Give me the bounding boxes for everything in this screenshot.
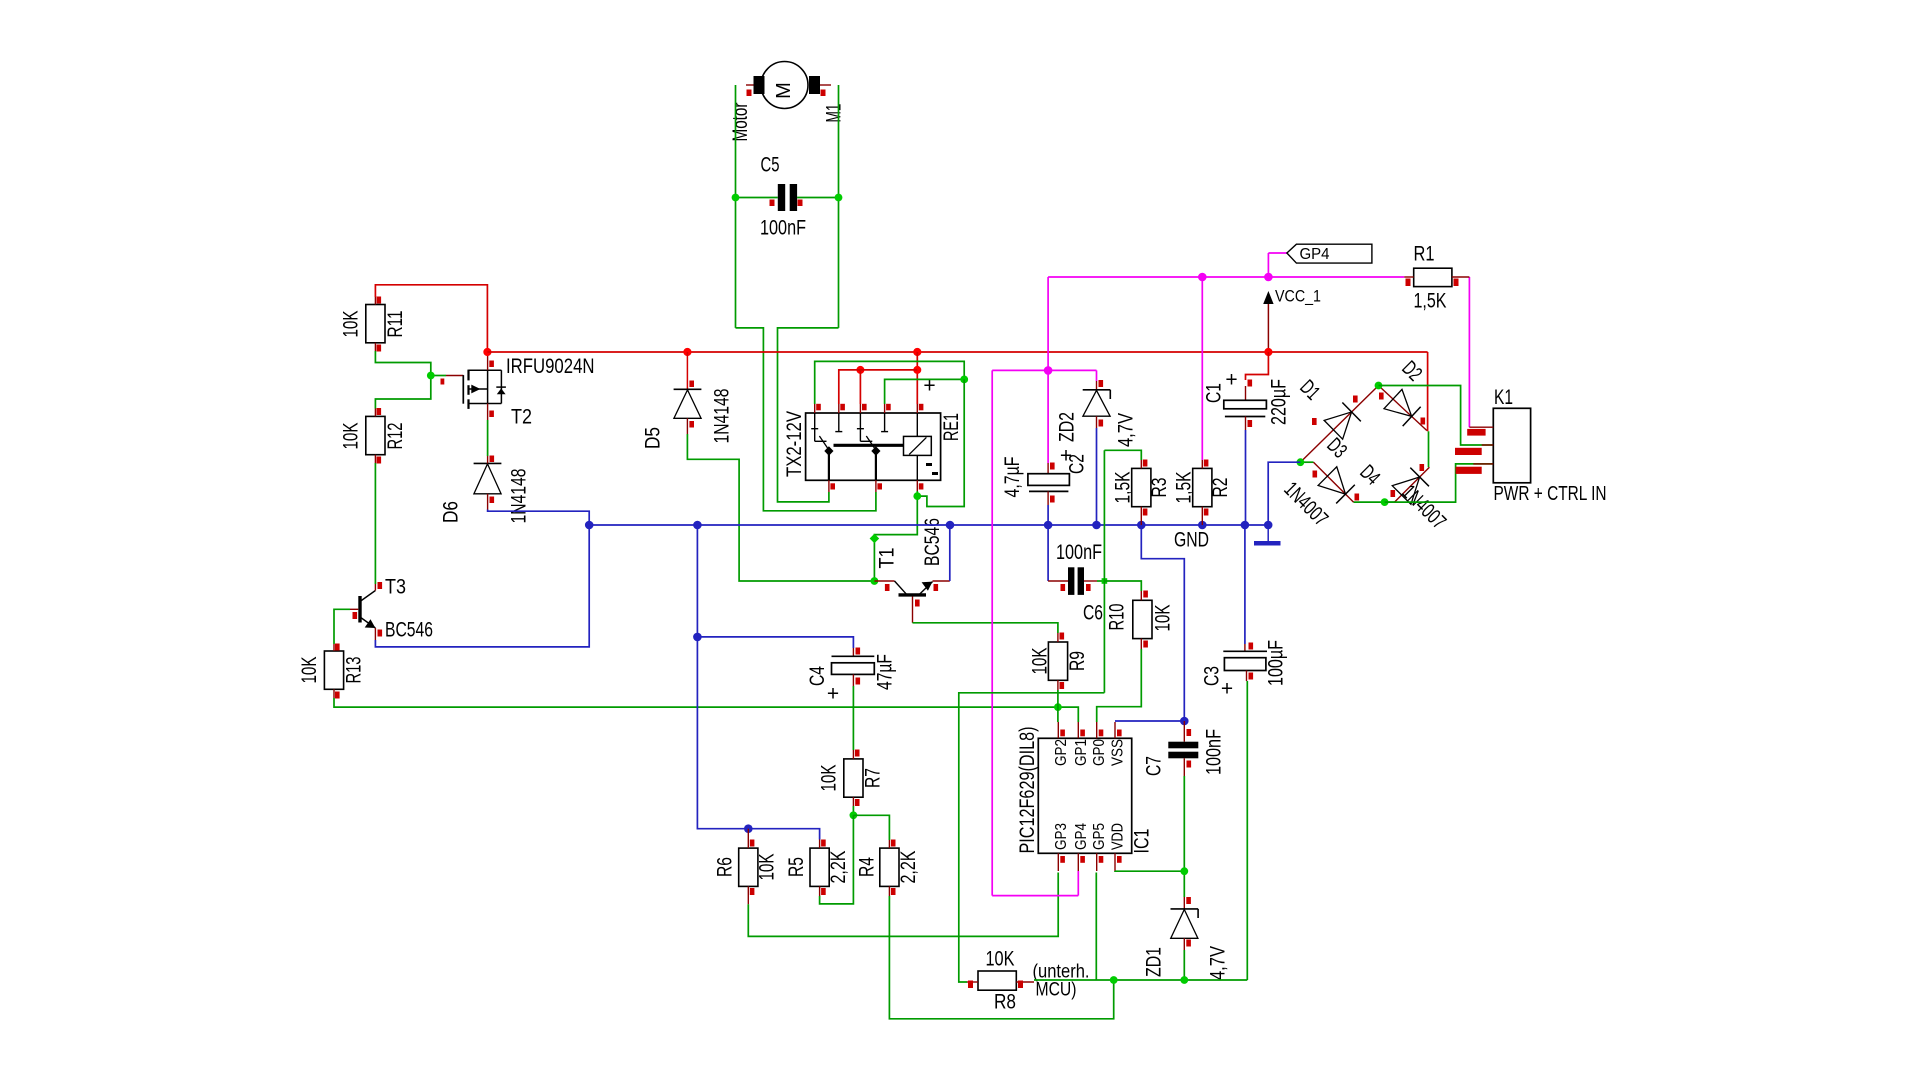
resistor R12 xyxy=(366,409,385,464)
resistor R10 xyxy=(1133,591,1152,649)
svg-text:T1: T1 xyxy=(875,548,898,569)
capacitor C2 4,7uF xyxy=(1028,463,1070,505)
pad T1 base xyxy=(885,584,890,591)
wire net to R8 left xyxy=(959,693,1105,982)
pad K1 pin3 xyxy=(1456,467,1482,474)
capacitor C3 100uF xyxy=(1223,644,1267,681)
pad T2 gate xyxy=(441,379,445,385)
pad C5 pin2 xyxy=(798,200,803,207)
pad IC1 VSS xyxy=(1117,730,1122,737)
svg-text:C4: C4 xyxy=(806,666,829,686)
relay RE1 TX2-12V xyxy=(806,404,941,492)
pad R9 bottom xyxy=(1060,682,1065,689)
pad C3 bottom xyxy=(1249,673,1254,680)
junction C7 top VSS xyxy=(1180,717,1189,726)
junction relay coil+ red bus xyxy=(913,348,921,356)
pad R5 top xyxy=(821,840,826,847)
pad R4 bottom xyxy=(891,888,896,895)
wire motor right vertical xyxy=(838,85,840,328)
pad R6 bottom xyxy=(750,888,755,895)
svg-text:D5: D5 xyxy=(641,427,664,449)
pad C2 top xyxy=(1050,463,1055,470)
svg-text:10K: 10K xyxy=(1028,648,1051,675)
pad C4 top xyxy=(856,648,861,655)
junction GP4 net C2/ZD2 node xyxy=(1044,366,1053,375)
svg-text:R9: R9 xyxy=(1066,651,1089,671)
pad R10 bottom xyxy=(1143,641,1148,648)
wire node to R5 bottom xyxy=(820,815,854,904)
svg-text:R8: R8 xyxy=(994,990,1016,1013)
svg-text:10K: 10K xyxy=(1151,605,1174,632)
resistor R11 xyxy=(366,297,385,351)
svg-text:VCC_1: VCC_1 xyxy=(1275,286,1321,305)
svg-text:1N4148: 1N4148 xyxy=(710,389,733,444)
wire bridge bottom node to K1 pin3 xyxy=(1385,464,1494,502)
pad M1 pin2 xyxy=(821,90,826,97)
wire GND bus to C3 top xyxy=(1244,525,1246,644)
pad IC1 GP3 xyxy=(1060,856,1065,863)
junction GND bus C4 branch xyxy=(693,521,702,530)
junction C6 right node xyxy=(1102,578,1108,584)
svg-text:C2: C2 xyxy=(1065,454,1088,474)
svg-text:10K: 10K xyxy=(339,423,362,450)
pad R10 top xyxy=(1143,591,1148,598)
svg-text:100µF: 100µF xyxy=(1264,640,1287,686)
flag GP4 xyxy=(1287,244,1372,263)
pad RE1 pin4 top xyxy=(886,404,891,411)
junction GND bus D6 xyxy=(585,521,594,530)
wire R8 right / green GND net xyxy=(1034,979,1247,981)
wire VSS to GND bus xyxy=(1141,525,1184,721)
pad R3 top xyxy=(1143,460,1148,467)
wire R6 bottom to GP3 xyxy=(748,873,1058,937)
svg-text:R5: R5 xyxy=(785,857,808,877)
pad T1 collector xyxy=(915,600,920,607)
pad D2 cathode xyxy=(1421,418,1426,425)
pad D6 anode xyxy=(490,497,495,504)
pad D3 cathode xyxy=(1355,494,1360,501)
junction net-A with R9/GP2 xyxy=(1054,703,1062,711)
svg-text:10K: 10K xyxy=(298,657,321,684)
svg-text:VSS: VSS xyxy=(1110,739,1127,766)
wire net to R10 top xyxy=(1104,581,1141,591)
svg-text:220µF: 220µF xyxy=(1267,379,1290,425)
wire R12 bottom to T3 collector xyxy=(374,463,376,584)
wire GP4 net magenta xyxy=(992,253,1469,896)
svg-text:D6: D6 xyxy=(439,501,462,523)
pad K1 pin2 xyxy=(1455,448,1482,455)
svg-text:RE1: RE1 xyxy=(940,413,963,441)
pad C5 pin1 xyxy=(770,200,775,207)
svg-text:R6: R6 xyxy=(713,857,736,877)
pad T2 source xyxy=(489,411,494,418)
wire D5 anode to T1 base node xyxy=(687,434,874,581)
pad R12 bottom xyxy=(377,457,382,464)
junction R7/R4/R5 node xyxy=(850,811,858,819)
svg-text:IC1: IC1 xyxy=(1130,829,1153,854)
pad D1 cathode xyxy=(1353,396,1358,403)
pad D1 anode xyxy=(1312,418,1317,425)
wire relay aux node to coil- loop xyxy=(917,379,964,506)
zener diode ZD1 4,7V xyxy=(1171,897,1199,950)
wire GND bus blue xyxy=(589,524,1268,526)
pad R8 left xyxy=(968,981,973,989)
svg-text:47µF: 47µF xyxy=(873,654,896,690)
wire relay pin1t aux net xyxy=(815,361,965,404)
pad C1 bottom xyxy=(1248,420,1253,427)
resistor R4 xyxy=(880,840,899,896)
pad R11 top xyxy=(377,297,382,304)
capacitor C4 47uF xyxy=(832,648,875,686)
svg-text:1,5K: 1,5K xyxy=(1111,472,1134,504)
wire R10 bottom to GP0 xyxy=(1097,649,1142,722)
resistor R5 xyxy=(810,840,829,897)
pad C2 bottom xyxy=(1050,496,1055,503)
wire green net to C3 bottom xyxy=(1246,681,1248,980)
IC U IC1 PIC12F629(DIL8) xyxy=(1038,722,1131,871)
svg-text:2,2K: 2,2K xyxy=(827,851,850,884)
junction relay red pin3 node xyxy=(856,366,864,374)
capacitor C5 xyxy=(736,184,839,211)
svg-text:1,5K: 1,5K xyxy=(1414,289,1447,312)
svg-text:M: M xyxy=(773,82,795,99)
wire motor left vertical xyxy=(735,85,737,328)
svg-text:IRFU9024N: IRFU9024N xyxy=(506,355,595,378)
pad R13 bottom xyxy=(335,692,340,699)
junction T1 base node xyxy=(871,577,879,585)
pad ZD1 cathode xyxy=(1186,897,1191,904)
diode D5 1N4148 xyxy=(674,352,702,434)
wire motor right to relay pin1b xyxy=(778,328,839,502)
svg-text:100nF: 100nF xyxy=(1202,729,1225,775)
pad R9 top xyxy=(1060,633,1065,640)
pad RE1 pin1 bottom xyxy=(830,483,835,489)
junction green net R4 branch xyxy=(1110,976,1118,984)
svg-text:R11: R11 xyxy=(384,311,407,338)
pad D6 cathode xyxy=(490,456,495,463)
diode D1 1N4007 xyxy=(1302,387,1378,462)
diode D6 1N4148 xyxy=(474,456,502,510)
pad T3 emitter xyxy=(378,630,383,637)
pad T3 base xyxy=(353,612,358,619)
svg-text:1N4148: 1N4148 xyxy=(507,469,530,524)
svg-text:+: + xyxy=(1221,677,1233,700)
pad C6 right xyxy=(1086,584,1091,591)
junction GP4 net R2 node xyxy=(1198,273,1207,282)
wire R9 bottom to GP2 xyxy=(1057,690,1059,722)
pad R12 top xyxy=(377,408,382,415)
pad R7 bottom xyxy=(855,799,860,806)
svg-text:100nF: 100nF xyxy=(1056,541,1102,564)
svg-text:2,2K: 2,2K xyxy=(897,851,920,884)
wire C6/R3/R10/R8 net vertical xyxy=(1103,450,1105,693)
svg-text:GP4: GP4 xyxy=(1073,823,1090,850)
wire C4 top blue xyxy=(697,637,853,648)
svg-text:R3: R3 xyxy=(1148,478,1171,498)
svg-text:R10: R10 xyxy=(1105,604,1128,631)
junction T2 drain red bus xyxy=(483,348,491,356)
resistor R13 xyxy=(324,644,343,698)
pad RE1 coil+ top xyxy=(919,404,924,411)
svg-text:R2: R2 xyxy=(1209,478,1232,498)
pad RE1 pin1 top xyxy=(816,404,821,411)
pad RE1 pin2 bottom xyxy=(877,483,882,489)
diode D2 1N4007 xyxy=(1380,387,1427,431)
pad ZD2 anode xyxy=(1099,420,1104,427)
resistor R9 xyxy=(1048,633,1067,690)
svg-text:GP5: GP5 xyxy=(1091,823,1108,850)
junction D5 red bus xyxy=(683,348,691,356)
resistor R1 1,5K xyxy=(1404,268,1469,286)
pad D5 cathode xyxy=(689,381,694,388)
svg-text:10K: 10K xyxy=(755,854,778,881)
wire relay coil- to T1 base node xyxy=(874,491,917,581)
wire red supply bus xyxy=(487,351,1268,353)
resistor R7 xyxy=(844,750,863,806)
svg-text:R1: R1 xyxy=(1414,242,1435,265)
resistor R6 xyxy=(739,829,758,905)
pad R8 right xyxy=(1018,981,1023,989)
svg-text:ZD2: ZD2 xyxy=(1055,412,1078,442)
svg-text:10K: 10K xyxy=(339,311,362,338)
wire R11 top to T2 drain (red) xyxy=(375,285,487,352)
wire C1 bottom to GND bus xyxy=(1245,430,1247,525)
motor M1 xyxy=(746,62,831,109)
pad K1 pin1 xyxy=(1467,429,1485,436)
svg-text:+: + xyxy=(827,682,839,705)
capacitor C7 100nF xyxy=(1168,721,1198,776)
wire gate stub xyxy=(431,375,446,377)
svg-text:T3: T3 xyxy=(385,575,406,598)
wire bridge top node to K1 pin2 xyxy=(1379,386,1494,446)
wire R4 bottom to VDD node xyxy=(889,896,1113,1019)
svg-text:VDD: VDD xyxy=(1110,823,1127,850)
wire D6 anode to GND bus xyxy=(488,510,590,526)
svg-text:ZD1: ZD1 xyxy=(1142,947,1165,977)
wire red bus right segment to bridge xyxy=(1268,351,1427,353)
svg-text:+: + xyxy=(1225,368,1237,391)
wire T1 collector to R9 top xyxy=(913,623,1058,633)
power symbol VCC_1 xyxy=(1263,291,1273,352)
wire R11 bottom / R12 top / T2 gate net xyxy=(375,351,430,409)
svg-text:4,7V: 4,7V xyxy=(1114,413,1137,447)
transistor T1 BC546 xyxy=(874,581,949,623)
wire relay contact supply pins red xyxy=(839,370,918,404)
wire T1 emitter to GND bus xyxy=(949,525,951,581)
junction GND bus T1 emitter xyxy=(946,521,955,530)
pad RE1 pin2 top xyxy=(840,404,845,411)
pad ZD1 anode xyxy=(1186,940,1191,947)
pad IC1 GP0 xyxy=(1099,730,1104,737)
junction GND bus C1/C3 xyxy=(1241,521,1250,530)
svg-text:Motor: Motor xyxy=(729,103,752,142)
diode D3 1N4007 xyxy=(1300,462,1384,503)
svg-text:R4: R4 xyxy=(855,857,878,877)
pad IC1 GP5 xyxy=(1099,856,1104,863)
pad R7 top xyxy=(855,750,860,757)
wire C2 bottom to GND bus xyxy=(1047,505,1049,525)
pad M1 pin1 xyxy=(747,90,752,97)
resistor R3 xyxy=(1132,460,1151,525)
pad IC1 VDD xyxy=(1117,856,1122,863)
wire GP5 to R8 net xyxy=(1095,873,1097,981)
wire ZD2 anode to GND bus xyxy=(1096,428,1098,525)
junction relay red coil node xyxy=(913,366,921,374)
svg-text:GND: GND xyxy=(1174,528,1209,551)
junction relay aux node xyxy=(960,376,968,384)
svg-text:+: + xyxy=(923,374,935,397)
pad IC1 GP1 xyxy=(1080,730,1085,737)
wire C6 left from GND bus xyxy=(1047,525,1049,581)
junction gate node xyxy=(427,372,435,380)
resistor R8 xyxy=(967,971,1034,990)
junction bridge left node xyxy=(1297,458,1305,466)
junction green net ZD1 xyxy=(1180,976,1188,984)
pad C4 bottom xyxy=(856,678,861,685)
junction GND bus C2/C6 xyxy=(1044,521,1053,530)
wire net to R3 top xyxy=(1104,450,1141,460)
ground symbol xyxy=(1254,525,1281,546)
pad R11 bottom xyxy=(377,345,382,352)
svg-text:MCU): MCU) xyxy=(1036,980,1077,1001)
pad D5 anode xyxy=(689,421,694,428)
svg-text:K1: K1 xyxy=(1494,386,1513,409)
svg-text:GP4: GP4 xyxy=(1300,246,1330,263)
svg-text:GP0: GP0 xyxy=(1091,739,1108,766)
svg-text:C5: C5 xyxy=(761,153,780,176)
junction GND bus ZD2 xyxy=(1092,521,1101,530)
junction VDD/C7/ZD1 node xyxy=(1180,867,1188,875)
connector K1 xyxy=(1469,408,1530,483)
wire ZD1 anode to green GND net xyxy=(1183,950,1185,980)
junction bridge top node xyxy=(1375,382,1383,390)
pad ZD2 cathode xyxy=(1099,380,1104,387)
junction C4 top branch xyxy=(693,633,702,642)
wire red bus to relay coil+ xyxy=(916,352,918,404)
diode D4 1N4007 xyxy=(1385,431,1430,504)
svg-text:R12: R12 xyxy=(384,423,407,450)
transistor T2 IRFU9024N xyxy=(463,352,506,420)
svg-text:M1: M1 xyxy=(822,104,845,123)
svg-text:PIC12F629(DIL8): PIC12F629(DIL8) xyxy=(1016,727,1039,854)
wire T3 emitter to GND bus xyxy=(375,525,589,647)
wire T3 base to R13 top xyxy=(334,609,350,644)
svg-text:C6: C6 xyxy=(1083,601,1103,624)
pad R5 bottom xyxy=(821,888,826,895)
capacitor C6 100nF xyxy=(1048,567,1104,595)
pad IC1 GP2 xyxy=(1060,730,1065,737)
svg-text:R13: R13 xyxy=(342,657,365,684)
pad C6 left xyxy=(1061,584,1066,591)
pad T2 drain xyxy=(489,361,494,368)
junction diamond coil- net xyxy=(870,534,880,544)
pad T1 emitter xyxy=(934,584,939,591)
junction R6 top xyxy=(744,824,753,833)
pad R1 left xyxy=(1406,279,1411,287)
pad C7 top xyxy=(1187,729,1192,736)
pad C7 bottom xyxy=(1187,761,1192,768)
pad R2 bottom xyxy=(1204,509,1209,516)
wire GND bus branch to C4/R6/R5 xyxy=(697,525,819,840)
wire C7 bottom to VDD node xyxy=(1183,776,1185,897)
wire T2 source to D6 xyxy=(487,420,489,456)
pad C1 top xyxy=(1248,380,1253,387)
wire C4 bottom to R7 top xyxy=(852,686,854,750)
transistor T3 BC546 xyxy=(350,584,375,640)
svg-text:10K: 10K xyxy=(817,765,840,792)
svg-text:PWR + CTRL IN: PWR + CTRL IN xyxy=(1494,483,1607,505)
pad T3 collector xyxy=(378,582,383,589)
pad RE1 coil- bottom xyxy=(919,483,924,489)
pad D2 anode xyxy=(1379,393,1384,400)
resistor R2 xyxy=(1193,460,1212,525)
svg-text:GP2: GP2 xyxy=(1053,739,1070,766)
junction relay coil- node xyxy=(913,492,921,500)
junction bridge bottom node xyxy=(1381,498,1389,506)
pad R13 top xyxy=(335,644,340,651)
svg-text:T2: T2 xyxy=(511,405,532,428)
pad R3 bottom xyxy=(1143,509,1148,516)
pad R4 top xyxy=(891,840,896,847)
junction VCC red bus xyxy=(1264,348,1272,356)
wire R7 bottom junction node xyxy=(852,806,854,815)
svg-text:10K: 10K xyxy=(986,947,1015,970)
junction motor-left C5 xyxy=(732,194,740,202)
svg-text:4,7µF: 4,7µF xyxy=(1001,456,1024,497)
pad C3 top xyxy=(1249,643,1254,650)
svg-text:TX2-12V: TX2-12V xyxy=(783,411,806,477)
pad D4 anode xyxy=(1391,490,1396,497)
pad D3 anode xyxy=(1313,471,1318,478)
svg-text:C1: C1 xyxy=(1202,383,1225,403)
wire bridge left node to GND xyxy=(1268,462,1300,525)
pad R6 top xyxy=(750,840,755,847)
svg-text:100nF: 100nF xyxy=(760,216,806,239)
svg-text:GP1: GP1 xyxy=(1073,739,1090,766)
svg-text:1,5K: 1,5K xyxy=(1172,472,1195,504)
junction GND bus R3 xyxy=(1137,521,1146,530)
pad D4 cathode xyxy=(1420,464,1425,471)
svg-text:4,7V: 4,7V xyxy=(1206,946,1229,980)
junction GND bus symbol node xyxy=(1264,521,1273,530)
wire relay pin4t aux net xyxy=(885,379,965,404)
junction GP4 net flag node xyxy=(1264,273,1273,282)
zener diode ZD2 4,7V xyxy=(1083,381,1111,428)
pad RE1 pin3 top xyxy=(862,404,867,411)
wire VDD to node xyxy=(1115,870,1184,872)
svg-text:C7: C7 xyxy=(1142,756,1165,776)
wire net-A from R13 bottom to GP1 xyxy=(334,698,1078,722)
capacitor C1 220uF xyxy=(1224,352,1269,430)
pad R1 right xyxy=(1454,279,1459,287)
wire node to R4 top xyxy=(853,815,889,840)
pad IC1 GP4 xyxy=(1080,856,1085,863)
svg-text:BC546: BC546 xyxy=(385,618,433,641)
svg-text:GP3: GP3 xyxy=(1053,823,1070,850)
svg-text:R7: R7 xyxy=(861,768,884,788)
junction motor-right C5 xyxy=(835,194,843,202)
pad R2 top xyxy=(1204,460,1209,467)
wire motor left to relay pin2b xyxy=(736,328,876,511)
junction GND bus R2 xyxy=(1198,521,1207,530)
